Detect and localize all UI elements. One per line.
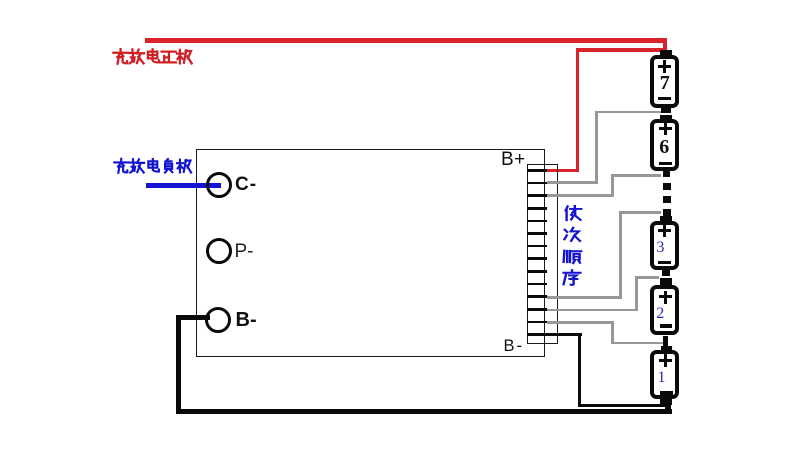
battery B1 — [661, 346, 672, 351]
battery B2 — [660, 278, 672, 285]
battery B7 — [660, 50, 672, 56]
pin 7 — [527, 245, 547, 248]
pad P- — [206, 238, 232, 264]
pin 10 — [527, 283, 547, 286]
wire gray sense pin2 to junction 7-6 — [547, 181, 598, 184]
wire gray sense pin12 to junction 3-2 — [547, 309, 638, 312]
pad B- — [205, 307, 231, 333]
pin 14 — [527, 333, 547, 336]
pad C- — [206, 172, 232, 198]
label blue 依次顺序 vertical — [564, 206, 582, 285]
board PCB outline — [196, 149, 545, 357]
pin 9 — [527, 270, 547, 273]
wire black B- power to battery1 minus — [176, 315, 210, 320]
label B+ — [501, 150, 526, 169]
wire red charge positive main horizontal — [145, 38, 667, 43]
pin 2 — [527, 182, 547, 185]
wire red drop to battery7 plus — [663, 38, 668, 52]
wire red branch horizontal to B+ sense — [577, 48, 665, 52]
pin 8 — [527, 257, 547, 260]
pin 11 — [527, 295, 547, 298]
wire gray sense pin3 to junction below battery6 — [547, 194, 614, 197]
pin 13 — [527, 321, 547, 324]
label B- right — [504, 338, 525, 355]
pin 5 — [527, 220, 547, 223]
label B- bold — [236, 310, 257, 330]
wire red branch vertical — [576, 48, 580, 171]
wire gray sense pin13 to junction 2-1 — [547, 321, 614, 324]
label blue 充放电负极 — [114, 159, 191, 173]
label red 充放电正极 — [113, 49, 191, 64]
wire blue charge negative into C- — [146, 183, 221, 189]
battery B3 — [660, 216, 672, 222]
battery B6 — [660, 115, 672, 120]
dashed omitted cells — [663, 183, 671, 190]
label C- — [235, 175, 257, 194]
pin 4 — [527, 207, 547, 210]
pin 1 — [527, 169, 547, 172]
label P- — [235, 242, 254, 261]
pin 3 — [527, 194, 547, 197]
connector J1 outline — [527, 164, 558, 344]
wire gray sense pin11 to battery3 plus — [547, 296, 622, 299]
wire black sense pin14 to battery1 minus — [527, 333, 582, 336]
pin 6 — [527, 232, 547, 235]
wire red into pin1 — [547, 169, 579, 172]
pin 12 — [527, 308, 547, 311]
